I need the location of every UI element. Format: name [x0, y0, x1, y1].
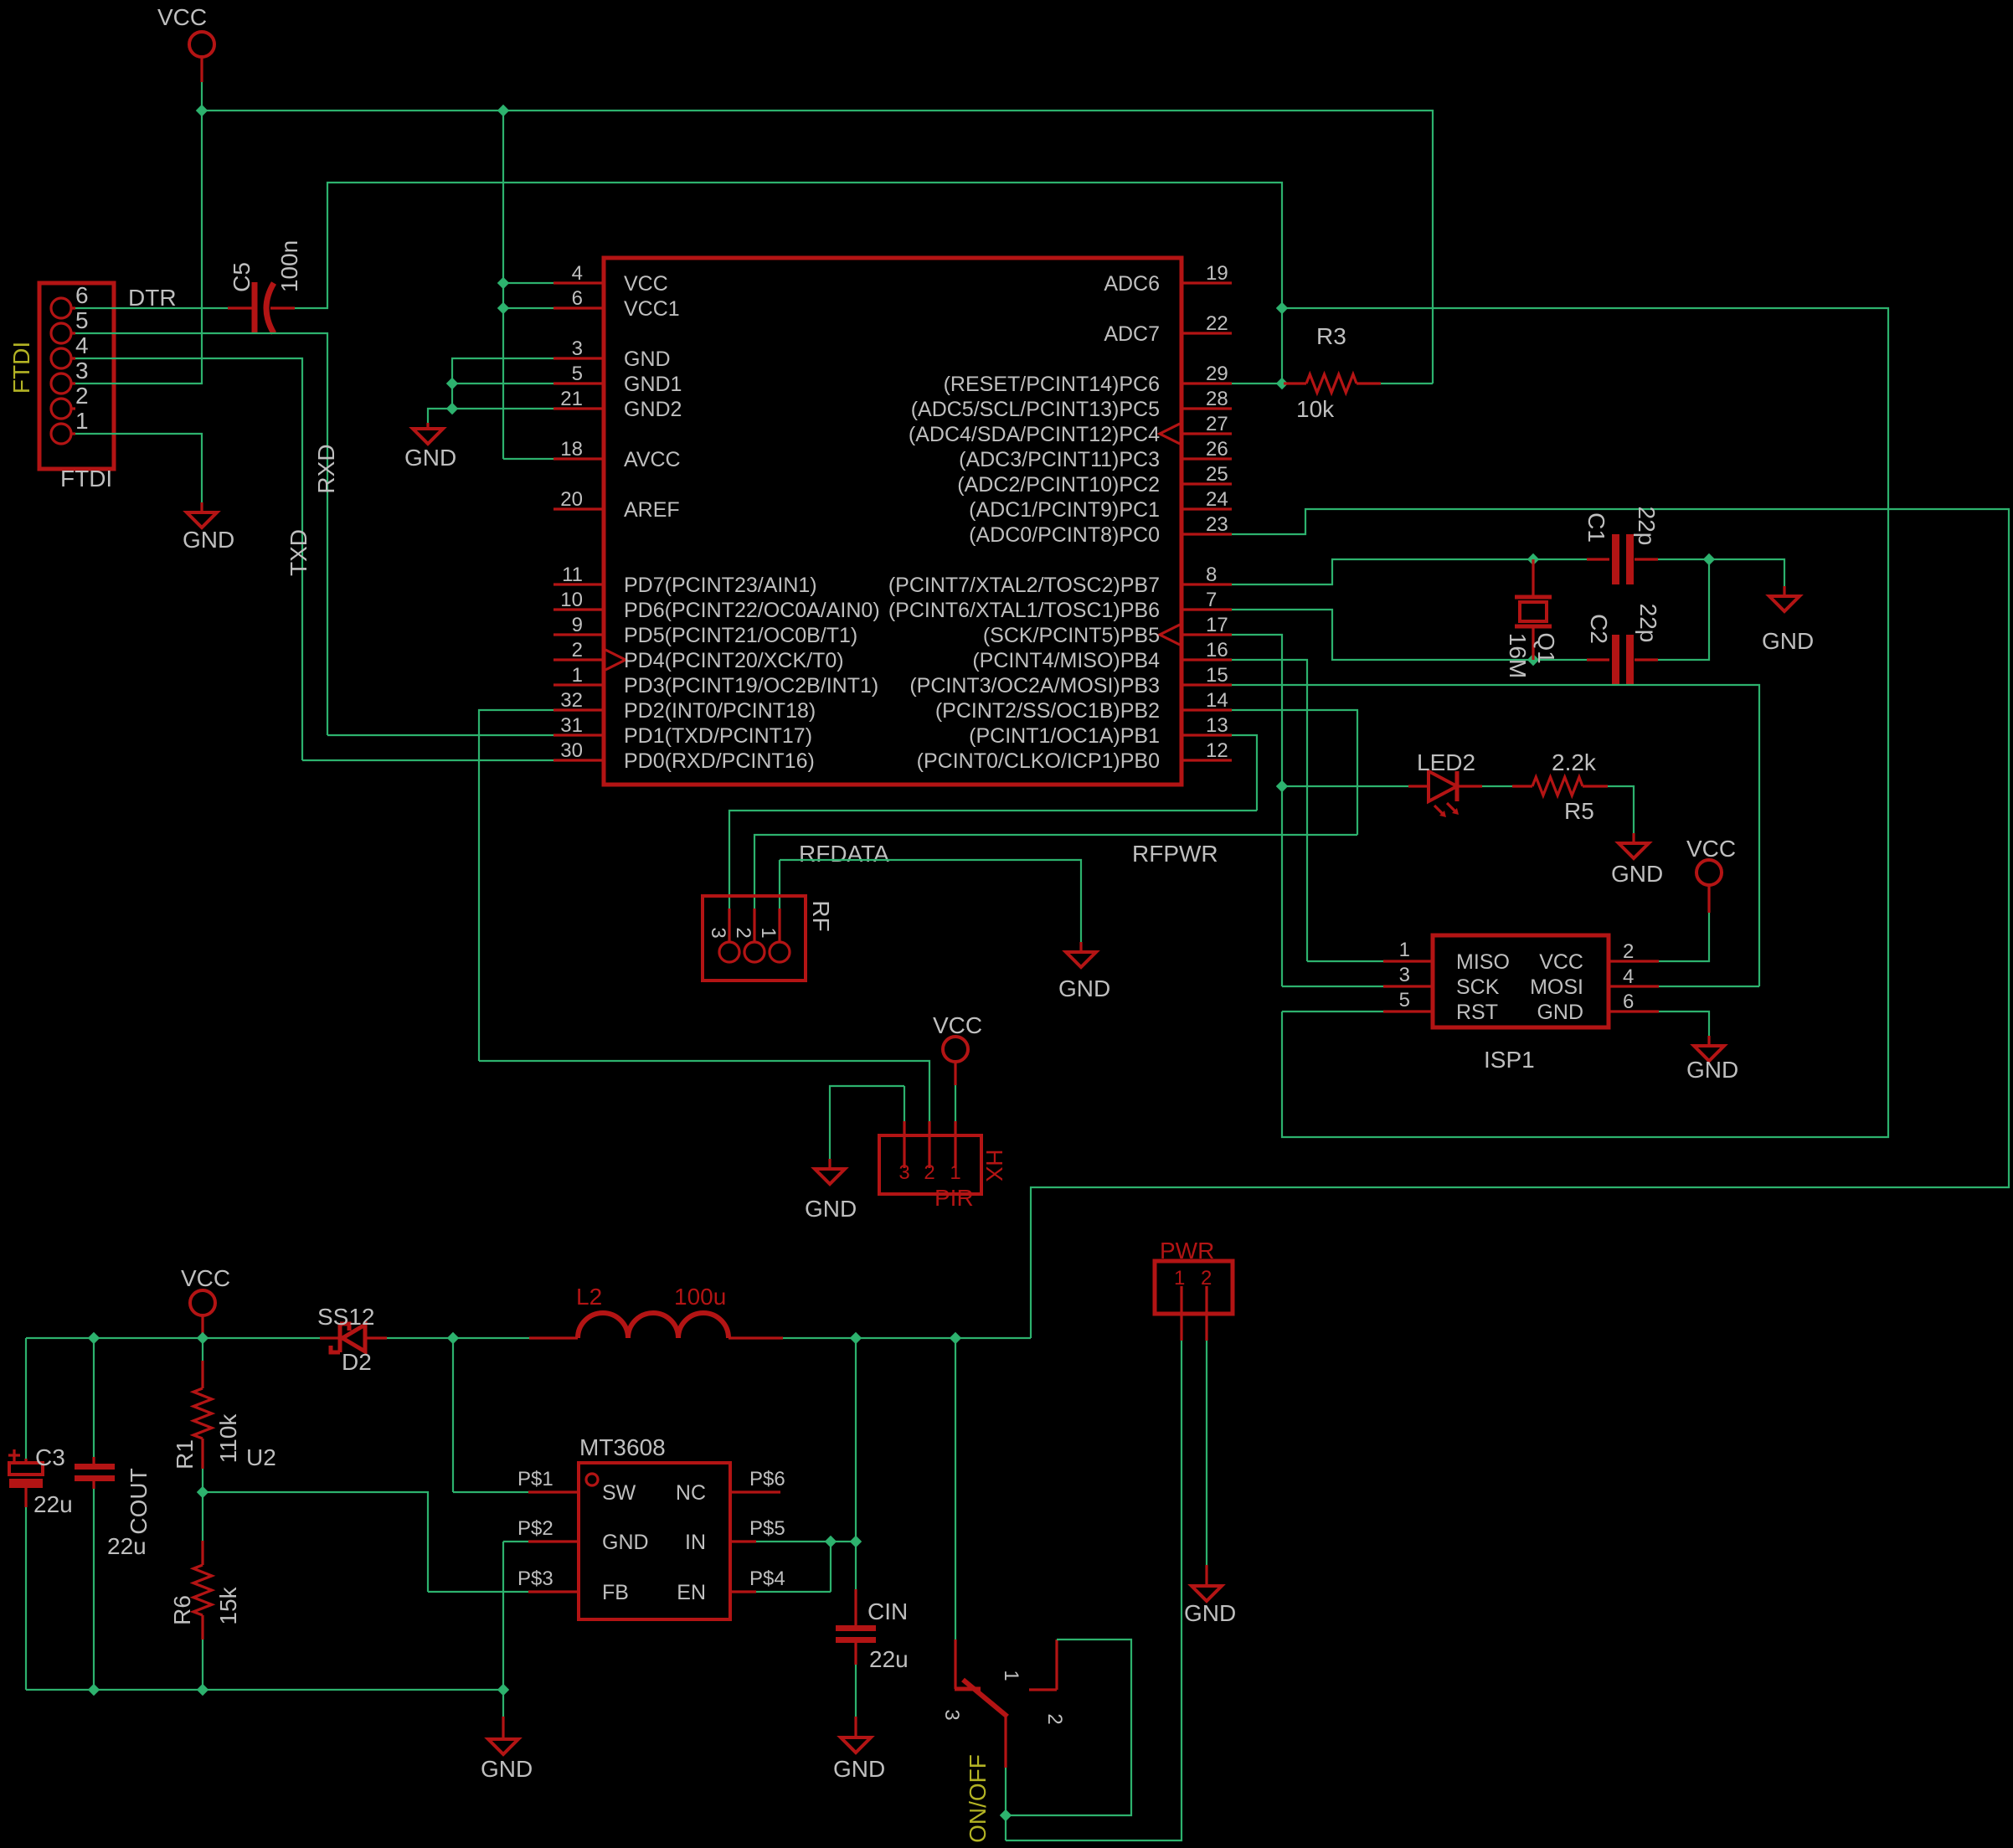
FTDI pin circles: [51, 298, 75, 444]
svg-text:(PCINT2/SS/OC1B)PB2: (PCINT2/SS/OC1B)PB2: [935, 699, 1160, 723]
node junction 1141,1598: [950, 1332, 961, 1344]
svg-text:100u: 100u: [674, 1284, 726, 1310]
svg-text:22u: 22u: [869, 1646, 909, 1672]
wire FTDI1 to GND: [75, 434, 202, 502]
svg-text:VCC: VCC: [157, 4, 207, 30]
pin 17 PB5 stub: [1182, 633, 1232, 636]
svg-text:ON/OFF: ON/OFF: [965, 1754, 991, 1843]
svg-text:C5: C5: [229, 262, 255, 292]
wire R5 to GND: [1608, 786, 1634, 833]
svg-text:(PCINT6/XTAL1/TOSC1)PB6: (PCINT6/XTAL1/TOSC1)PB6: [888, 599, 1160, 622]
svg-text:RF: RF: [808, 900, 834, 931]
svg-text:PD6(PCINT22/OC0A/AIN0): PD6(PCINT22/OC0A/AIN0): [624, 599, 880, 622]
wire FB divider to P$3: [203, 1492, 528, 1592]
pin 22 ADC7 stub: [1182, 332, 1232, 334]
svg-text:SS12: SS12: [317, 1304, 375, 1330]
svg-text:18: 18: [560, 438, 583, 461]
svg-text:PD2(INT0/PCINT18): PD2(INT0/PCINT18): [624, 699, 816, 723]
pin 10 PD6 stub: [553, 608, 604, 610]
svg-text:PD0(RXD/PCINT16): PD0(RXD/PCINT16): [624, 749, 815, 773]
svg-text:15: 15: [1206, 664, 1228, 687]
pin 9 PD5 stub: [553, 633, 604, 636]
pin 1 PD3 stub: [553, 683, 604, 686]
wire pin16 MISO to ISP1: [1232, 660, 1383, 961]
pin 16 PB4 stub: [1182, 658, 1232, 661]
capacitor C5 100n: [228, 306, 253, 309]
pin 24 PC1 stub: [1182, 507, 1232, 510]
wire pin17 SCK down to LED junction and ISP: [1232, 635, 1383, 986]
svg-text:ISP1: ISP1: [1484, 1047, 1535, 1073]
svg-text:3: 3: [1399, 964, 1410, 986]
svg-text:32: 32: [560, 689, 583, 712]
svg-text:2: 2: [75, 383, 89, 409]
pin numbers left side: [560, 262, 583, 762]
wire PWR pin2 to GND: [1206, 1341, 1207, 1565]
svg-text:GND: GND: [1686, 1057, 1738, 1083]
wire RESET branch to ISP RST: [1282, 308, 1888, 1137]
svg-text:1: 1: [1174, 1267, 1185, 1289]
svg-text:P$5: P$5: [749, 1517, 785, 1540]
svg-text:110k: 110k: [215, 1413, 241, 1464]
crystal Q1 16M: [1532, 559, 1534, 660]
capacitor COUT 22u: [93, 1338, 95, 1457]
ISP1 pin numbers: [1399, 939, 1410, 1012]
power symbol VCC at ISP: [1696, 860, 1722, 885]
svg-text:22u: 22u: [33, 1491, 73, 1517]
svg-text:(ADC3/PCINT11)PC3: (ADC3/PCINT11)PC3: [959, 448, 1160, 471]
pin 19 ADC6 stub: [1182, 281, 1232, 284]
svg-text:3: 3: [572, 337, 583, 360]
ground symbol PIR: [828, 1159, 831, 1169]
wire pin13 to RF pin3: [729, 735, 1257, 909]
svg-text:1: 1: [1399, 939, 1410, 961]
wire pin23 PC0 battery sense net: [1031, 509, 2009, 1338]
node junction 541,1598: [447, 1332, 459, 1344]
pin 6 VCC1 stub: [553, 306, 604, 309]
led LED2: [1408, 785, 1429, 787]
inductor L2 100u: [529, 1336, 578, 1339]
svg-text:C2: C2: [1586, 614, 1612, 644]
wire VCC branch x601 to IC VCC pins and AVCC: [503, 111, 553, 459]
wire LED to R5: [1482, 785, 1512, 787]
pin 3 GND stub: [553, 357, 604, 359]
node junction 1831,668: [1527, 553, 1539, 565]
ground symbol bottom rail: [502, 1717, 504, 1739]
svg-text:L2: L2: [576, 1284, 602, 1310]
pin 2 PD4 clock arrow: [605, 650, 626, 670]
connector FTDI box: [39, 283, 114, 469]
regulator U2 MT3608 box: [579, 1463, 730, 1619]
svg-text:R1: R1: [172, 1439, 198, 1470]
svg-text:VCC: VCC: [933, 1012, 982, 1038]
svg-text:HX: HX: [981, 1150, 1007, 1182]
svg-text:D2: D2: [342, 1349, 372, 1375]
svg-text:1: 1: [950, 1161, 960, 1184]
ground symbol CIN: [854, 1717, 857, 1737]
svg-text:5: 5: [75, 307, 89, 333]
wire PIR pin1 to VCC: [955, 1085, 956, 1121]
svg-text:28: 28: [1206, 388, 1228, 410]
svg-text:19: 19: [1206, 262, 1228, 285]
U2 pin names: [602, 1481, 649, 1604]
capacitor C2 22p: [1587, 658, 1658, 661]
svg-text:C1: C1: [1583, 512, 1609, 543]
pin numbers right side: [1206, 262, 1228, 762]
svg-text:GND: GND: [1537, 1001, 1583, 1024]
pin 31 PD1 stub: [553, 734, 604, 736]
wire switch pin2 to junction: [1005, 1768, 1006, 1840]
node junction 601,338: [497, 277, 509, 289]
diode D2 SS12 schottky: [320, 1336, 387, 1339]
wire switch pin1 loop: [1006, 1640, 1131, 1815]
svg-text:NC: NC: [676, 1481, 706, 1505]
pin names left column: [624, 272, 880, 773]
connector PIR box: [879, 1135, 981, 1194]
svg-text:16: 16: [1206, 639, 1228, 661]
node junction 112,1598: [88, 1332, 100, 1344]
pin 5 GND1 stub: [553, 382, 604, 384]
svg-text:VCC: VCC: [1686, 836, 1736, 862]
svg-text:(PCINT1/OC1A)PB1: (PCINT1/OC1A)PB1: [969, 724, 1160, 748]
wire RF pin1 to GND: [780, 860, 1081, 942]
wire C1 right side to GND: [1658, 559, 1784, 586]
wire VCC down to rail: [201, 82, 203, 111]
node junction 242,1782: [197, 1486, 209, 1498]
power symbol VCC top-left: [189, 32, 214, 57]
svg-text:GND: GND: [624, 347, 671, 371]
svg-text:6: 6: [1623, 991, 1634, 1013]
svg-text:VCC1: VCC1: [624, 297, 680, 321]
svg-text:MOSI: MOSI: [1530, 975, 1583, 999]
pin 2 PD4 stub: [553, 658, 604, 661]
svg-text:10: 10: [560, 589, 583, 611]
svg-text:2: 2: [732, 927, 754, 938]
svg-text:FTDI: FTDI: [8, 342, 34, 394]
node junction 1022,1598: [850, 1332, 862, 1344]
ground symbol below IC GND pins: [426, 423, 429, 429]
wire FTDI3 to VCC: [75, 111, 202, 383]
svg-text:31: 31: [560, 714, 583, 737]
svg-text:4: 4: [75, 332, 89, 358]
wire IC GND pins subtree: [428, 358, 553, 423]
pin 11 PD7 stub: [553, 583, 604, 585]
pin 15 PB3 stub: [1182, 683, 1232, 686]
svg-text:2.2k: 2.2k: [1552, 749, 1597, 775]
resistor R6 15k: [202, 1492, 203, 1541]
wire C2 right side up to C1: [1658, 559, 1709, 660]
wire IN P$5 to CIN junction: [756, 1541, 856, 1542]
svg-text:P$3: P$3: [517, 1567, 553, 1590]
node junction 242,2018: [197, 1684, 209, 1696]
svg-text:22u: 22u: [107, 1533, 147, 1559]
svg-text:GND: GND: [1611, 861, 1663, 887]
wire pin14 RFPWR to RF pin2: [754, 710, 1357, 909]
power symbol VCC at PIR: [943, 1037, 968, 1062]
svg-text:SW: SW: [602, 1481, 636, 1505]
power symbol VCC bottom: [190, 1290, 215, 1315]
capacitor C1 22p: [1587, 558, 1658, 560]
connector PWR box: [1155, 1261, 1233, 1314]
node junction 1531,368: [1276, 302, 1288, 314]
svg-text:26: 26: [1206, 438, 1228, 461]
ground rail bottom left: [26, 1690, 503, 1717]
svg-text:RST: RST: [1456, 1001, 1498, 1024]
pin 28 PC5 stub: [1182, 407, 1232, 409]
pin 26 PC3 stub: [1182, 457, 1232, 460]
svg-text:R3: R3: [1316, 323, 1346, 349]
svg-text:1: 1: [572, 664, 583, 687]
svg-text:10k: 10k: [1296, 396, 1335, 422]
node VCC junction at 601,132: [497, 105, 509, 116]
svg-text:24: 24: [1206, 488, 1228, 511]
svg-text:GND: GND: [183, 527, 234, 553]
svg-text:GND2: GND2: [624, 398, 682, 421]
svg-text:(ADC4/SDA/PCINT12)PC4: (ADC4/SDA/PCINT12)PC4: [909, 423, 1160, 446]
node junction 112,2018: [88, 1684, 100, 1696]
capacitor CIN 22u: [854, 1589, 857, 1625]
svg-text:VCC: VCC: [624, 272, 668, 296]
svg-text:1: 1: [757, 927, 780, 938]
svg-text:12: 12: [1206, 739, 1228, 762]
svg-text:PD3(PCINT19/OC2B/INT1): PD3(PCINT19/OC2B/INT1): [624, 674, 878, 698]
svg-text:5: 5: [572, 363, 583, 385]
svg-text:100n: 100n: [276, 240, 302, 292]
svg-text:3: 3: [707, 927, 729, 938]
svg-text:27: 27: [1206, 413, 1228, 435]
svg-text:(PCINT4/MISO)PB4: (PCINT4/MISO)PB4: [972, 649, 1160, 672]
wire RXD FTDI5 to PD1: [75, 333, 553, 735]
svg-text:17: 17: [1206, 614, 1228, 636]
op IC main box ATmega328: [604, 258, 1182, 785]
svg-text:SCK: SCK: [1456, 975, 1500, 999]
svg-text:(ADC2/PCINT10)PC2: (ADC2/PCINT10)PC2: [957, 473, 1160, 497]
wire battery column to CIN: [855, 1338, 857, 1589]
svg-text:13: 13: [1206, 714, 1228, 737]
svg-text:2: 2: [924, 1161, 934, 1184]
svg-text:22: 22: [1206, 312, 1228, 335]
ISP1 pin names: [1456, 950, 1510, 1024]
wire LED anode: [1282, 785, 1408, 787]
node junction 1022,1841: [850, 1536, 862, 1547]
ground symbol RF pin1: [1079, 942, 1082, 952]
svg-text:RXD: RXD: [313, 444, 339, 493]
wire switch pin3 column: [955, 1338, 956, 1640]
svg-text:(PCINT7/XTAL2/TOSC2)PB7: (PCINT7/XTAL2/TOSC2)PB7: [888, 574, 1160, 597]
pin 12 PB0 stub: [1182, 759, 1232, 761]
node junction 540,488: [446, 403, 458, 414]
svg-text:2: 2: [1043, 1713, 1066, 1724]
svg-text:AREF: AREF: [624, 498, 680, 522]
svg-text:P$4: P$4: [749, 1567, 785, 1590]
pin 32 PD2 stub: [553, 708, 604, 711]
svg-text:(SCK/PCINT5)PB5: (SCK/PCINT5)PB5: [983, 624, 1160, 647]
svg-text:1: 1: [75, 408, 89, 434]
svg-text:Q1: Q1: [1533, 632, 1559, 663]
svg-text:C3: C3: [35, 1444, 65, 1470]
connector ISP1 box: [1433, 935, 1609, 1027]
svg-text:21: 21: [560, 388, 583, 410]
svg-text:GND: GND: [1762, 628, 1814, 654]
pin 27 PC4 clock arrow: [1160, 424, 1180, 444]
wire pin7 XTAL1: [1232, 610, 1587, 660]
svg-text:AVCC: AVCC: [624, 448, 681, 471]
node junction 242,1598: [197, 1332, 209, 1344]
svg-text:GND: GND: [833, 1756, 885, 1782]
resistor R3 10k: [1284, 374, 1381, 393]
svg-text:GND: GND: [1058, 975, 1110, 1001]
svg-text:16M: 16M: [1505, 633, 1531, 678]
node junction 601,368: [497, 302, 509, 314]
svg-text:IN: IN: [685, 1531, 706, 1554]
pin 7 PB6 stub: [1182, 608, 1232, 610]
pin 20 AREF stub: [553, 507, 604, 510]
ground symbol ISP pin6: [1707, 1036, 1710, 1046]
wire PIR pin3 to GND: [830, 1086, 904, 1159]
switch ON/OFF: [954, 1640, 956, 1689]
svg-text:22p: 22p: [1635, 604, 1661, 643]
wire pin8 XTAL2: [1232, 559, 1587, 584]
svg-text:P$6: P$6: [749, 1468, 785, 1490]
pin 21 GND2 stub: [553, 407, 604, 409]
node junction 992,1841: [825, 1536, 837, 1547]
svg-text:PD7(PCINT23/AIN1): PD7(PCINT23/AIN1): [624, 574, 817, 597]
svg-text:COUT: COUT: [126, 1468, 152, 1534]
svg-text:CIN: CIN: [867, 1598, 908, 1624]
svg-text:EN: EN: [677, 1581, 706, 1604]
pin 8 PB7 stub: [1182, 583, 1232, 585]
capacitor C3 22u polarized: [25, 1338, 27, 1459]
connector RF box: [703, 896, 806, 981]
svg-text:P$2: P$2: [517, 1517, 553, 1540]
pin names right column: [888, 272, 1160, 773]
svg-text:R6: R6: [169, 1595, 195, 1625]
svg-text:DTR: DTR: [128, 285, 177, 311]
svg-text:GND: GND: [481, 1756, 533, 1782]
pin 18 AVCC stub: [553, 457, 604, 460]
pin 30 PD0 stub: [553, 759, 604, 761]
node VCC junction at 241,132: [196, 105, 208, 116]
svg-text:(PCINT0/CLKO/ICP1)PB0: (PCINT0/CLKO/ICP1)PB0: [917, 749, 1160, 773]
svg-text:(PCINT3/OC2A/MOSI)PB3: (PCINT3/OC2A/MOSI)PB3: [909, 674, 1160, 698]
svg-text:3: 3: [940, 1709, 963, 1720]
resistor R5 2.2k: [1512, 777, 1608, 795]
wire TXD FTDI4 to PD0: [75, 358, 553, 760]
svg-text:R5: R5: [1564, 798, 1594, 824]
svg-text:29: 29: [1206, 363, 1228, 385]
svg-text:9: 9: [572, 614, 583, 636]
svg-text:VCC: VCC: [181, 1265, 230, 1291]
svg-text:8: 8: [1206, 564, 1217, 586]
svg-text:6: 6: [572, 287, 583, 310]
svg-text:MISO: MISO: [1456, 950, 1510, 974]
svg-text:1: 1: [1000, 1670, 1022, 1681]
svg-text:3: 3: [898, 1161, 909, 1184]
U2 pad labels: [517, 1468, 785, 1590]
svg-text:20: 20: [560, 488, 583, 511]
svg-text:6: 6: [75, 282, 89, 308]
svg-text:4: 4: [1623, 965, 1634, 988]
svg-text:5: 5: [1399, 989, 1410, 1012]
svg-text:RFPWR: RFPWR: [1132, 841, 1218, 867]
FTDI pin numbers: [75, 282, 89, 434]
ISP1 pin stubs: [1383, 961, 1659, 1012]
svg-text:TXD: TXD: [286, 529, 311, 576]
resistor R1 110k: [202, 1338, 203, 1361]
pin 29 PC6 stub: [1182, 382, 1232, 384]
svg-text:ADC6: ADC6: [1104, 272, 1160, 296]
svg-text:GND: GND: [404, 445, 456, 471]
svg-text:FTDI: FTDI: [60, 466, 112, 492]
node junction 1201,2168: [1000, 1809, 1012, 1821]
wire EN P$4 tied to IN: [756, 1542, 831, 1592]
node junction 601,2018: [497, 1684, 509, 1696]
svg-text:MT3608: MT3608: [579, 1434, 666, 1460]
svg-text:GND: GND: [1184, 1600, 1236, 1626]
svg-text:LED2: LED2: [1417, 749, 1475, 775]
ground symbol PWR: [1205, 1565, 1207, 1586]
svg-text:U2: U2: [246, 1444, 276, 1470]
svg-text:2: 2: [572, 639, 583, 661]
svg-text:22p: 22p: [1634, 507, 1660, 546]
svg-text:PD4(PCINT20/XCK/T0): PD4(PCINT20/XCK/T0): [624, 649, 844, 672]
svg-text:7: 7: [1206, 589, 1217, 611]
pin 13 PB1 stub: [1182, 734, 1232, 736]
svg-text:11: 11: [562, 564, 583, 586]
svg-text:4: 4: [572, 262, 583, 285]
svg-text:15k: 15k: [215, 1586, 241, 1624]
wire bottom to PWR pin1: [1006, 1341, 1182, 1840]
svg-text:(ADC1/PCINT9)PC1: (ADC1/PCINT9)PC1: [969, 498, 1160, 522]
svg-text:PIR: PIR: [934, 1185, 974, 1211]
svg-text:25: 25: [1206, 463, 1228, 486]
svg-text:14: 14: [1206, 689, 1228, 712]
wire ISP pin6 to GND: [1659, 1012, 1709, 1036]
svg-text:(RESET/PCINT14)PC6: (RESET/PCINT14)PC6: [944, 373, 1160, 396]
wire ISP pin2 to VCC: [1659, 913, 1709, 961]
wire C5 right to y218 rail: [295, 183, 1282, 308]
svg-text:RFDATA: RFDATA: [799, 841, 889, 867]
wire R3 right to VCC rail: [1381, 383, 1433, 384]
svg-text:PD1(TXD/PCINT17): PD1(TXD/PCINT17): [624, 724, 812, 748]
pin 17 PB5 clock arrow: [1160, 625, 1180, 645]
pin 27 PC4 stub: [1182, 432, 1232, 435]
svg-text:VCC: VCC: [1539, 950, 1583, 974]
PIR pin numbers: [898, 1161, 960, 1184]
node junction 540,458: [446, 378, 458, 389]
svg-text:PWR: PWR: [1160, 1238, 1214, 1264]
pin 23 PC0 stub: [1182, 533, 1232, 535]
ground symbol crystal caps: [1783, 586, 1785, 596]
wire pin15 MOSI to ISP4: [1232, 685, 1759, 986]
wire P$2 GND down: [503, 1542, 528, 1690]
svg-text:(ADC0/PCINT8)PC0: (ADC0/PCINT8)PC0: [969, 523, 1160, 547]
wire RESET net to pin29: [1232, 308, 1284, 383]
svg-text:(ADC5/SCL/PCINT13)PC5: (ADC5/SCL/PCINT13)PC5: [911, 398, 1160, 421]
svg-text:ADC7: ADC7: [1104, 322, 1160, 346]
wire main VCC rail bottom: [26, 1337, 1031, 1339]
svg-text:GND: GND: [602, 1531, 649, 1554]
ground symbol R5: [1632, 833, 1635, 843]
svg-text:GND1: GND1: [624, 373, 682, 396]
svg-text:PD5(PCINT21/OC0B/T1): PD5(PCINT21/OC0B/T1): [624, 624, 857, 647]
pin 25 PC2 stub: [1182, 482, 1232, 485]
svg-text:3: 3: [75, 358, 89, 383]
wire D2 to P$1 SW: [453, 1338, 528, 1492]
svg-text:30: 30: [560, 739, 583, 762]
svg-text:2: 2: [1201, 1267, 1212, 1289]
wire VCC top rail: [202, 111, 1433, 383]
wire pin32 INT0 to PIR pin2: [479, 710, 929, 1121]
